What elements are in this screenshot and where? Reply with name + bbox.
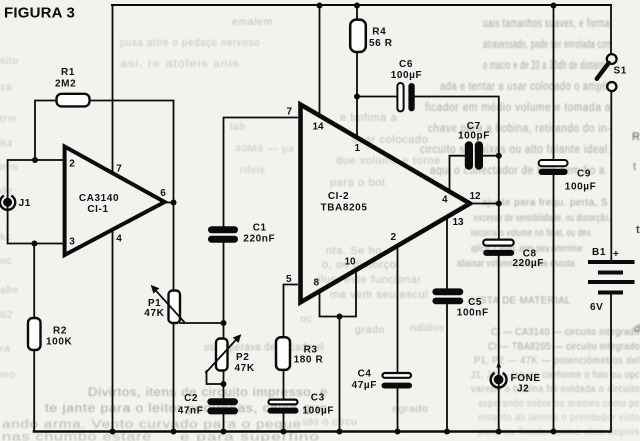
battery B1 [588, 247, 635, 313]
svg-text:14: 14 [313, 122, 325, 133]
junction ground C4 [395, 429, 401, 435]
wire J1 sleeve to CI-1 pin 3 [8, 206, 65, 244]
svg-text:100µF: 100µF [565, 182, 597, 193]
junction P2 wiper node [221, 381, 227, 387]
jack J2 FONE [491, 362, 541, 395]
svg-text:180 R: 180 R [294, 354, 324, 365]
wire C5 bottom to ground rail [446, 304, 448, 431]
svg-text:13: 13 [453, 217, 465, 228]
svg-text:CA3140: CA3140 [79, 193, 119, 204]
svg-text:uais tamanhos suaves, e forma: uais tamanhos suaves, e forma [483, 18, 610, 30]
svg-text:7: 7 [116, 163, 122, 174]
op-amp U1 CA3140 CI-1 [65, 147, 167, 256]
svg-text:Divirtos, itens de circuito im: Divirtos, itens de circuito impresso, e [88, 387, 328, 399]
svg-text:220µF: 220µF [512, 258, 544, 269]
wire C8 bottom to FONE J2 [498, 256, 500, 376]
wire R1 left leg down to pin 2 node [35, 101, 57, 161]
wire supply rail to C9 [553, 5, 555, 160]
svg-text:100µF: 100µF [391, 70, 423, 81]
svg-text:FONE: FONE [511, 373, 541, 384]
svg-text:100nF: 100nF [457, 308, 489, 319]
svg-text:220nF: 220nF [243, 234, 275, 245]
svg-text:100µF: 100µF [303, 405, 335, 416]
svg-text:grado: grado [355, 324, 385, 336]
svg-text:varede a bobina foi soldada o: varede a bobina foi soldada o circuito [471, 383, 640, 395]
capacitor C6 electrolytic [391, 59, 423, 111]
svg-text:rdeis: rdeis [240, 164, 266, 176]
capacitor C8 electrolytic [483, 240, 544, 270]
switch S1 [597, 54, 627, 91]
svg-text:4: 4 [442, 195, 448, 206]
wire CI-2 pin 8 pin 10 strap [320, 270, 357, 317]
svg-text:ficador em médio volume e toma: ficador em médio volume e tomada a [425, 102, 611, 114]
svg-text:C1: C1 [253, 223, 267, 234]
svg-text:6V: 6V [590, 302, 603, 313]
svg-text:circuito se caixas ou alto fal: circuito se caixas ou alto falante ideal… [420, 144, 611, 156]
svg-text:ada e tentar a usar colocado o: ada e tentar a usar colocado o ampli- [440, 81, 611, 93]
svg-text:o macio e de 20 a 30dh de dist: o macio e de 20 a 30dh de distante. [483, 60, 611, 72]
wire C7 left leg to CI-2 pin 4 [450, 156, 466, 191]
wire CI-1 pin 6 output [165, 202, 174, 204]
capacitor C5 [432, 288, 488, 318]
wire V+ drop to CI-1 pin 7 [112, 5, 114, 174]
svg-text:t: t [636, 224, 640, 236]
wire C9 bottom to ground rail [553, 175, 555, 432]
junction ground P1 [171, 429, 177, 435]
svg-text:CI-2: CI-2 [328, 191, 349, 202]
wire CI-2 pin 5 to R3 [284, 285, 298, 338]
svg-text:CI-1: CI-1 [87, 204, 108, 215]
wire battery B1 negative to ground rail [610, 295, 612, 432]
svg-text:ando arma. Vento curvado para: ando arma. Vento curvado para o peque [2, 419, 302, 431]
svg-text:e bofima a: e bofima a [340, 112, 398, 124]
svg-text:S1: S1 [614, 66, 627, 77]
svg-text:J1: J1 [19, 198, 31, 209]
wire CI-1 pin 4 to ground rail [112, 229, 114, 432]
svg-text:sito: sito [0, 55, 19, 67]
svg-text:asperando sobre os arames como: asperando sobre os arames como pe [478, 397, 640, 409]
svg-text:C5: C5 [468, 297, 482, 308]
wire CI-2 pin 7 to C1 column [224, 118, 298, 227]
title FIGURA 3 [4, 5, 75, 22]
wire top supply rail [112, 4, 611, 6]
wire P1 wiper tap to C1 column [180, 322, 224, 324]
wire R1 right leg to output column [89, 101, 174, 203]
junction ground C2 [221, 429, 227, 435]
wire supply rail to S1 [610, 5, 612, 54]
capacitor C3 electrolytic [268, 392, 335, 416]
junction ground C3 [281, 429, 287, 435]
junction ground strap [337, 429, 343, 435]
potentiometer P2 [206, 334, 255, 374]
wire pin 8-10 strap to ground rail [339, 317, 341, 432]
junction pin2 node [32, 157, 38, 163]
svg-text:R2: R2 [53, 326, 67, 337]
junction CI-2 output node [496, 201, 502, 207]
wire R4 bottom to CI-2 pin 1 [356, 52, 358, 137]
svg-text:J2: J2 [517, 384, 529, 395]
wire CI-2 pin 2 to C4 [397, 246, 399, 374]
junction ground CI-1 pin4 [110, 429, 116, 435]
wire bottom ground rail [34, 430, 610, 433]
svg-text:R4: R4 [372, 27, 386, 38]
svg-text:4: 4 [116, 234, 122, 245]
svg-text:7: 7 [287, 106, 293, 117]
svg-text:excesso de sensibilidade, ou d: excesso de sensibilidade, ou distorção, [474, 212, 611, 224]
wire pin 3 node down through R2 to ground [33, 244, 35, 432]
edge fragment [636, 224, 640, 236]
svg-text:C3: C3 [311, 392, 325, 403]
junction ground J2 [496, 429, 502, 435]
svg-text:P2: P2 [236, 352, 249, 363]
svg-text:3: 3 [69, 237, 75, 248]
svg-text:ra: ra [0, 343, 11, 355]
svg-text:puxa atire o pedaço nervoso: puxa atire o pedaço nervoso [120, 37, 260, 49]
svg-text:ndidos: ndidos [410, 322, 445, 334]
svg-text:6: 6 [160, 188, 166, 199]
svg-text:e para superfino: e para superfino [180, 432, 320, 441]
svg-text:asi. re atoleis anis: asi. re atoleis anis [120, 58, 240, 70]
capacitor C9 electrolytic [539, 160, 597, 193]
svg-text:2: 2 [391, 232, 397, 243]
svg-text:nas chumbo estare: nas chumbo estare [2, 432, 152, 441]
wire R3 bottom to C3 top [283, 370, 285, 399]
svg-text:LISTA DE MATERIAL: LISTA DE MATERIAL [471, 295, 571, 307]
svg-text:8: 8 [314, 278, 320, 289]
svg-text:10: 10 [345, 257, 357, 268]
wire supply rail to CI-2 pin 14 [319, 5, 321, 115]
wire C1 bottom to P2 top [223, 243, 225, 339]
svg-text:100pF: 100pF [458, 130, 490, 141]
svg-text:entanto as lamina o prendedor: entanto as lamina o prendedor visto [478, 412, 640, 424]
capacitor C4 electrolytic [352, 368, 412, 391]
junction rail pin14 [317, 3, 323, 9]
wire C7 right leg to bootstrap column [482, 155, 499, 157]
jack J1 [0, 196, 31, 210]
svg-text:de: de [0, 185, 13, 197]
svg-text:za: za [0, 81, 12, 93]
wire P2 bottom to C2 [223, 370, 225, 398]
junction R4 C6 node [354, 94, 360, 100]
svg-text:ims: ims [0, 161, 18, 173]
junction rail C9 [551, 3, 557, 9]
wire P1 bottom to ground rail [173, 323, 175, 432]
svg-text:Ci — CA3140 — circuito integra: Ci — CA3140 — circuito integrado [491, 326, 640, 338]
amplifier U2 TBA8205 CI-2 [286, 105, 481, 303]
svg-text:Ci — TBA8205 — circuito integr: Ci — TBA8205 — circuito integrado [488, 340, 640, 352]
svg-text:t: t [633, 161, 636, 173]
svg-text:47K: 47K [235, 363, 255, 374]
resistor R2 [28, 318, 72, 350]
junction P1 tap node [221, 320, 227, 326]
capacitor C2 [178, 393, 238, 417]
wire C3 bottom to ground rail [283, 414, 285, 432]
svg-text:kc: kc [0, 231, 12, 243]
junction pin8-10 strap node [337, 314, 343, 320]
junction ground C5 [444, 429, 450, 435]
svg-text:40M9 — pa: 40M9 — pa [235, 143, 295, 155]
svg-text:12: 12 [470, 191, 482, 202]
wire J2 sleeve to ground rail [498, 384, 500, 432]
svg-text:emalem: emalem [232, 16, 273, 28]
wire CI-2 pin 12 output [470, 203, 499, 205]
svg-text:B1: B1 [592, 247, 606, 258]
svg-text:mo: mo [0, 369, 16, 381]
svg-text:trm: trm [0, 113, 17, 125]
svg-text:ma vem seu escul: ma vem seu escul [330, 289, 428, 301]
junction rail R4 [354, 3, 360, 9]
svg-text:47µF: 47µF [352, 380, 377, 391]
junction pin3 node [31, 241, 37, 247]
svg-text:recorra o volume no final, ou: recorra o volume no final, ou des [471, 227, 591, 239]
potentiometer P1 [144, 285, 184, 323]
svg-text:C6: C6 [399, 59, 413, 70]
svg-text:R: R [632, 131, 640, 143]
wire S1 to battery B1 positive [610, 92, 612, 261]
svg-text:84: 84 [0, 138, 13, 150]
svg-text:56 R: 56 R [369, 38, 393, 49]
svg-text:47nF: 47nF [178, 406, 204, 417]
svg-text:oc: oc [0, 255, 12, 267]
svg-text:chave para a bobina, retirando: chave para a bobina, retirando do in- [428, 123, 611, 135]
svg-text:R1: R1 [61, 67, 75, 78]
svg-text:C9: C9 [577, 169, 591, 180]
resistor R1 [55, 67, 90, 106]
resistor R4 [350, 20, 393, 52]
svg-text:47K: 47K [144, 308, 164, 319]
svg-text:100K: 100K [46, 337, 72, 348]
wire supply rail to R4 [356, 5, 358, 20]
svg-text:2M2: 2M2 [55, 79, 76, 90]
svg-text:2: 2 [69, 159, 75, 170]
wire CI-2 pin 13 to C5 [446, 217, 448, 288]
wire C6 right plate to bootstrap column [415, 97, 499, 240]
wire output node down to P1 [173, 203, 175, 291]
svg-text:FIGURA 3: FIGURA 3 [4, 5, 75, 22]
wire C4 bottom to ground rail [397, 389, 399, 432]
junction ground C9 [551, 429, 557, 435]
svg-text:lah: lah [230, 121, 246, 133]
svg-text:d: d [634, 323, 640, 335]
svg-text:ido o circu: ido o circu [303, 416, 357, 428]
svg-text:TBA8205: TBA8205 [321, 203, 368, 214]
junction C7 bootstrap node [496, 153, 502, 159]
resistor R3 [276, 337, 323, 370]
svg-text:62: 62 [0, 309, 13, 321]
svg-text:5: 5 [286, 274, 292, 285]
svg-text:+: + [613, 249, 619, 260]
wire J1 tip to CI-1 pin 2 [8, 160, 65, 199]
wire C2 bottom to ground rail [223, 414, 225, 431]
svg-text:nta. Se ho: nta. Se ho [326, 245, 382, 257]
svg-text:C4: C4 [358, 368, 372, 379]
capacitor C1 [208, 223, 275, 245]
svg-text:C2: C2 [184, 393, 198, 404]
svg-text:para o bot: para o bot [330, 177, 386, 189]
capacitor C7 [458, 121, 490, 170]
wire R4 node to C6 left plate [357, 96, 397, 98]
svg-text:abe: abe [0, 284, 19, 296]
wire P2 wiper hook [207, 371, 224, 384]
svg-text:oc: oc [300, 313, 312, 325]
svg-text:1: 1 [355, 143, 361, 154]
svg-text:atravessado, pode ser enrolada: atravessado, pode ser enrolada com [483, 39, 612, 51]
junction CI-1 output node [171, 200, 177, 206]
